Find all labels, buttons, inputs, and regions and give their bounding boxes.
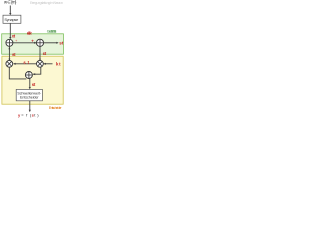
svg-text:Entscheider: Entscheider [49, 106, 63, 110]
svg-text:st: st [43, 51, 47, 56]
svg-text:st: st [32, 82, 36, 87]
svg-text:Gedächtnis: Gedächtnis [47, 29, 57, 33]
svg-text:Synapse: Synapse [4, 17, 19, 22]
svg-text:t): t) [34, 112, 39, 117]
svg-text:s∈R: s∈R [27, 30, 32, 35]
svg-text:st: st [59, 41, 64, 46]
svg-text:Erregungsleitung im Neuron: Erregungsleitung im Neuron [30, 1, 63, 5]
svg-text:+: + [31, 38, 34, 43]
svg-text:= f (: = f ( [21, 112, 32, 117]
svg-text:Entscheider: Entscheider [20, 96, 39, 100]
svg-text:kt: kt [56, 62, 61, 67]
svg-text:w ∈ {m}: w ∈ {m} [4, 0, 17, 5]
svg-text:st: st [12, 52, 16, 57]
svg-text:xt: xt [12, 33, 16, 38]
